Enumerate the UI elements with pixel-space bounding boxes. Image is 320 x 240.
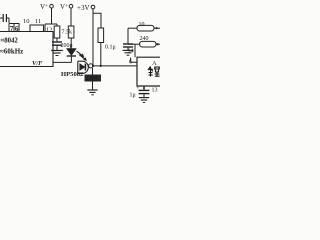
output bubble of U2 bbox=[89, 64, 93, 68]
svg-text:200μ: 200μ bbox=[61, 43, 73, 49]
capacitor 200u bbox=[52, 41, 62, 43]
resistor R2 bbox=[68, 26, 74, 38]
svg-text:V/F: V/F bbox=[32, 60, 43, 67]
module U3 box bbox=[137, 57, 160, 86]
resistor R3 pull-up bbox=[98, 28, 104, 43]
svg-text:240: 240 bbox=[140, 36, 149, 42]
svg-text:7.5k: 7.5k bbox=[62, 30, 73, 36]
junction below module bbox=[143, 87, 145, 89]
wire LED cathode to IC output V/F bbox=[53, 61, 71, 63]
pin 14 wire bbox=[134, 44, 136, 57]
pin 6 stub to ground bbox=[131, 58, 137, 63]
ground G4 bbox=[139, 97, 149, 99]
wire resistor 10 right bbox=[154, 27, 160, 29]
ground G3 bbox=[87, 89, 97, 91]
wire V+1 down bbox=[51, 8, 53, 24]
svg-text:6: 6 bbox=[129, 60, 132, 66]
ground G1 bbox=[51, 50, 63, 52]
svg-text:10: 10 bbox=[139, 22, 145, 28]
node wire cap/240/pin14 bbox=[128, 43, 135, 45]
wire +3V down bbox=[92, 9, 94, 66]
resistor 240 bbox=[140, 41, 156, 47]
svg-text:6: 6 bbox=[15, 25, 19, 33]
IC U1 box bbox=[0, 32, 53, 67]
svg-text:HP5082: HP5082 bbox=[61, 71, 84, 78]
svg-text:12: 12 bbox=[46, 27, 53, 34]
svg-text:≈60kHz: ≈60kHz bbox=[0, 48, 23, 56]
svg-text:10: 10 bbox=[23, 18, 30, 25]
svg-text:14: 14 bbox=[128, 49, 134, 55]
power rail V+ (first) bbox=[0, 0, 1, 1]
light beam arrow 2 bbox=[79, 55, 85, 60]
capacitor 1u bbox=[139, 89, 150, 91]
photodiode inside U2 bbox=[80, 64, 85, 70]
svg-text:+: + bbox=[137, 87, 140, 92]
crystal X1 bbox=[0, 17, 3, 19]
svg-text:13: 13 bbox=[152, 88, 158, 94]
wire to resistor 10 bbox=[128, 27, 137, 29]
wire crystal to pin 7 bbox=[8, 18, 10, 23]
ground G3 wire below U2 bbox=[92, 68, 94, 90]
svg-text:+3V: +3V bbox=[77, 4, 90, 12]
svg-text:≈8042: ≈8042 bbox=[1, 38, 19, 45]
ground G2 bbox=[123, 49, 134, 51]
LED D1 bbox=[67, 49, 76, 56]
svg-text:4205: 4205 bbox=[86, 77, 98, 83]
power rail +3V bbox=[91, 5, 95, 9]
pin 13 stub bbox=[143, 86, 145, 90]
pin 12 stub bbox=[44, 24, 46, 32]
svg-text:A: A bbox=[152, 60, 157, 67]
wire resistor 240 right bbox=[156, 43, 160, 45]
svg-text:11: 11 bbox=[35, 18, 41, 25]
photodetector U2 HP5082-4205 body bbox=[78, 61, 89, 73]
resistor 7.5k bbox=[54, 26, 60, 38]
wire V+2 down bbox=[70, 8, 72, 26]
node junction at +3V and output bbox=[92, 65, 94, 67]
light beam arrow 1 bbox=[77, 51, 83, 56]
label 4205 on dark blob bbox=[85, 75, 102, 82]
power rail V+ (second) bbox=[69, 4, 73, 8]
svg-text:1μ: 1μ bbox=[130, 93, 136, 99]
capacitor 0.1u bbox=[123, 43, 133, 45]
junction dot right of resistor 10 bbox=[156, 27, 158, 29]
junction R3 at output wire bbox=[100, 65, 102, 67]
component between pins 10 and 11 bbox=[30, 25, 44, 32]
wire V+1 to pin 12 and resistor bbox=[45, 23, 57, 25]
module text CJK (drawn) bbox=[148, 67, 160, 77]
junction dot right of resistor 240 bbox=[157, 43, 159, 45]
wire top-right node down bbox=[127, 28, 129, 43]
resistor 10 bbox=[137, 25, 154, 31]
wire +3V branch to pull-up resistor bbox=[93, 13, 101, 28]
wire U2 output to module bbox=[93, 65, 137, 67]
pin callout box 7/6 bbox=[9, 24, 19, 32]
svg-text:7: 7 bbox=[10, 25, 14, 33]
svg-text:0.1μ: 0.1μ bbox=[105, 45, 116, 51]
